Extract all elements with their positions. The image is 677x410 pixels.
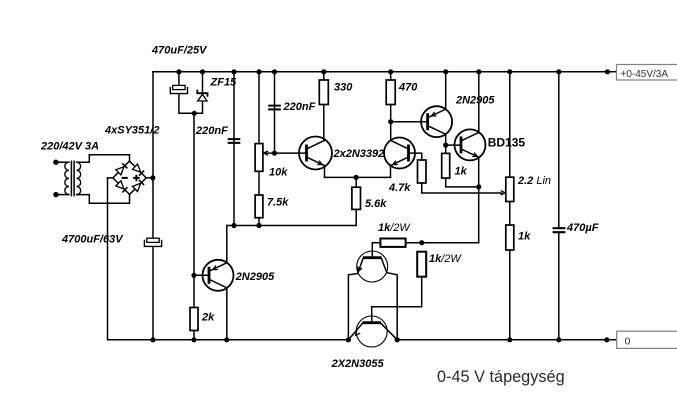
svg-text:2k: 2k (201, 312, 215, 324)
svg-text:BD135: BD135 (488, 135, 526, 149)
svg-text:1k/2W: 1k/2W (429, 253, 462, 265)
svg-text:470: 470 (398, 82, 418, 94)
svg-text:ZF15: ZF15 (210, 76, 238, 88)
svg-text:1k: 1k (518, 231, 531, 243)
svg-text:0: 0 (625, 336, 631, 348)
svg-text:4.7k: 4.7k (388, 182, 411, 194)
svg-text:2N2905: 2N2905 (455, 95, 495, 107)
svg-text:1k/2W: 1k/2W (378, 222, 411, 234)
svg-text:0-45 V tápegység: 0-45 V tápegység (437, 368, 565, 386)
svg-text:7.5k: 7.5k (267, 197, 289, 209)
svg-text:1k: 1k (455, 165, 468, 177)
svg-text:+0-45V/3A: +0-45V/3A (621, 69, 669, 80)
svg-text:220nF: 220nF (283, 101, 316, 113)
svg-text:2.2 Lin: 2.2 Lin (517, 175, 551, 187)
svg-text:2N2905: 2N2905 (235, 271, 275, 283)
svg-text:220/42V 3A: 220/42V 3A (40, 141, 99, 153)
svg-text:220nF: 220nF (195, 125, 228, 137)
svg-text:470µF: 470µF (566, 222, 599, 234)
svg-text:2X2N3055: 2X2N3055 (331, 358, 385, 370)
svg-text:2x2N3392: 2x2N3392 (333, 148, 385, 160)
svg-text:5.6k: 5.6k (365, 198, 387, 210)
svg-text:330: 330 (334, 82, 353, 94)
svg-text:470uF/25V: 470uF/25V (151, 44, 208, 56)
svg-text:4700uF/63V: 4700uF/63V (61, 234, 124, 246)
svg-text:10k: 10k (269, 167, 288, 179)
svg-text:4xSY351/2: 4xSY351/2 (104, 125, 159, 137)
